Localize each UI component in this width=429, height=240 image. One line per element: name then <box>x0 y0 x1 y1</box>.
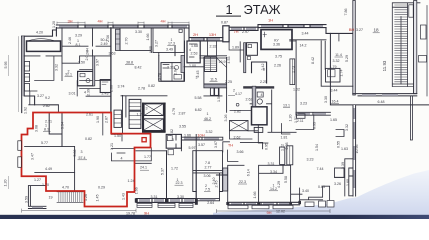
room 3.44 bottom wall <box>290 40 326 113</box>
svg-text:2.04: 2.04 <box>85 48 89 55</box>
svg-text:2.40: 2.40 <box>212 178 216 185</box>
svg-text:11.4: 11.4 <box>335 53 342 57</box>
corridor verticals by stair <box>205 85 227 88</box>
pillar 0.87 <box>223 26 229 42</box>
interior walls top-left quadrant <box>24 28 111 63</box>
small room 4 (x187) <box>187 41 200 63</box>
svg-text:3.31: 3.31 <box>151 195 158 199</box>
svg-text:0.29: 0.29 <box>98 186 105 190</box>
left outer wall <box>22 36 25 96</box>
svg-text:3.57: 3.57 <box>198 143 205 147</box>
svg-text:1: 1 <box>207 112 209 116</box>
svg-text:4: 4 <box>261 93 263 97</box>
svg-text:1.77: 1.77 <box>144 155 151 159</box>
svg-text:2.87: 2.87 <box>179 111 186 115</box>
svg-text:2.06: 2.06 <box>110 85 114 92</box>
svg-text:17.3: 17.3 <box>168 42 175 46</box>
svg-text:3.06: 3.06 <box>204 174 211 178</box>
right wing right edge below tower <box>410 96 412 140</box>
window band 7H (y27.2-30.4) <box>229 27 258 30</box>
right wing interior rooms <box>335 130 354 197</box>
svg-text:12.02: 12.02 <box>276 210 285 214</box>
svg-text:1.43: 1.43 <box>121 193 125 200</box>
svg-text:6.14: 6.14 <box>246 169 250 176</box>
svg-text:3.32: 3.32 <box>333 59 340 63</box>
louvre shaft A <box>129 99 141 110</box>
svg-text:3.30: 3.30 <box>324 96 328 103</box>
svg-text:4.53: 4.53 <box>227 57 231 64</box>
svg-text:2.62: 2.62 <box>246 98 253 102</box>
svg-text:6.48: 6.48 <box>378 100 385 104</box>
svg-text:3.26: 3.26 <box>224 115 228 122</box>
svg-text:4: 4 <box>121 157 123 161</box>
corridor wall y146.4 <box>25 146 75 191</box>
louvre shaft left <box>114 110 121 127</box>
svg-text:1.24: 1.24 <box>128 179 135 183</box>
svg-text:24.1: 24.1 <box>140 165 147 169</box>
svg-text:1.26: 1.26 <box>84 194 88 201</box>
svg-text:4.17: 4.17 <box>235 92 242 96</box>
right wing bottom annex <box>349 168 353 196</box>
bathroom unit courtyard <box>227 86 297 149</box>
navy footer bar <box>0 215 429 219</box>
svg-text:1.45: 1.45 <box>95 195 99 202</box>
room 1.77 walls <box>135 148 152 164</box>
svg-text:11.93: 11.93 <box>382 60 387 71</box>
svg-text:1.65: 1.65 <box>330 118 337 122</box>
svg-text:2.25: 2.25 <box>260 80 267 84</box>
svg-text:1.20: 1.20 <box>288 115 292 122</box>
small dark box courtyard <box>252 107 268 125</box>
small rooms left of tower <box>290 33 339 41</box>
svg-text:1.68: 1.68 <box>191 44 198 48</box>
svg-text:2.70: 2.70 <box>125 38 129 45</box>
svg-text:2.64: 2.64 <box>174 68 178 75</box>
svg-text:1.85: 1.85 <box>149 46 153 53</box>
svg-text:4.70: 4.70 <box>62 186 69 190</box>
svg-text:2: 2 <box>233 88 235 92</box>
svg-text:4: 4 <box>189 48 191 52</box>
svg-text:3Н: 3Н <box>67 18 72 23</box>
svg-text:5.37: 5.37 <box>160 168 164 175</box>
step to tower <box>326 28 353 34</box>
room label underlines <box>43 33 380 192</box>
left wall riser boxes <box>24 62 29 72</box>
title: 1 ЭТАЖ <box>216 2 281 17</box>
svg-text:3.27: 3.27 <box>37 94 44 98</box>
svg-text:2.82: 2.82 <box>43 104 50 108</box>
svg-text:3.23: 3.23 <box>307 157 314 161</box>
balcony glazing arc <box>29 39 54 41</box>
dimension line 12.02 <box>216 209 330 213</box>
svg-text:3.44: 3.44 <box>331 88 338 92</box>
bottom window band right rooms <box>228 202 300 205</box>
window band right (y24.6-27.6) <box>258 25 326 31</box>
svg-text:1.27: 1.27 <box>34 178 41 182</box>
svg-text:3.75: 3.75 <box>275 55 282 59</box>
main spine wall x=110.9 <box>110 28 112 113</box>
balcony top-left <box>27 41 61 51</box>
svg-text:2.87: 2.87 <box>105 116 109 123</box>
svg-text:2.43: 2.43 <box>102 91 109 95</box>
stair tower landing <box>392 84 413 86</box>
svg-text:3.34: 3.34 <box>61 122 65 129</box>
svg-text:2.97: 2.97 <box>242 30 249 34</box>
svg-text:3.40: 3.40 <box>302 189 309 193</box>
svg-text:2.78: 2.78 <box>138 87 145 91</box>
dimension labels vertical (rotated) <box>4 9 388 204</box>
svg-text:7.8: 7.8 <box>205 161 210 165</box>
red zone labels <box>67 17 354 215</box>
svg-text:1.92: 1.92 <box>24 107 28 114</box>
svg-text:1.02: 1.02 <box>293 87 300 91</box>
outer wall top-left section <box>22 28 57 37</box>
svg-text:1.74: 1.74 <box>340 70 344 77</box>
svg-text:ВН: ВН <box>349 27 355 32</box>
south facade sill row <box>137 201 334 209</box>
window band top (y25-28) <box>56 25 189 28</box>
toilet block centre <box>161 63 184 82</box>
svg-text:3.32: 3.32 <box>206 130 213 134</box>
annex bottom-left <box>28 186 46 209</box>
svg-text:5.58: 5.58 <box>195 96 202 100</box>
svg-text:1.70: 1.70 <box>42 183 49 187</box>
svg-text:8.42: 8.42 <box>311 57 315 64</box>
svg-text:1.63: 1.63 <box>341 147 348 151</box>
svg-text:2: 2 <box>205 184 207 188</box>
svg-text:2.64: 2.64 <box>207 201 214 205</box>
svg-text:5.80: 5.80 <box>73 150 77 157</box>
svg-text:14.2: 14.2 <box>300 44 307 48</box>
tower right outer wall <box>414 1 417 94</box>
svg-text:3.66: 3.66 <box>237 150 244 154</box>
svg-text:38.8: 38.8 <box>126 61 133 65</box>
red apartment outline <box>22 113 151 207</box>
rooms x296-330 <box>321 41 353 86</box>
svg-text:9Н: 9Н <box>266 210 271 215</box>
svg-text:3.30: 3.30 <box>135 30 142 34</box>
svg-text:3.29: 3.29 <box>75 34 82 38</box>
walls near 1.81 <box>282 115 314 134</box>
court small service rooms <box>229 42 244 62</box>
svg-text:6.82: 6.82 <box>195 108 202 112</box>
svg-text:2.26: 2.26 <box>274 63 281 67</box>
svg-text:1: 1 <box>177 178 179 182</box>
svg-text:19.78: 19.78 <box>126 211 135 215</box>
small circle mark courtyard <box>236 103 239 106</box>
far right small box <box>421 25 427 39</box>
svg-text:0.82: 0.82 <box>85 137 92 141</box>
left window boxes <box>18 141 22 151</box>
svg-text:2.82: 2.82 <box>234 109 241 113</box>
svg-text:1.20: 1.20 <box>4 180 8 187</box>
svg-text:8.1: 8.1 <box>44 127 49 131</box>
svg-text:1.66: 1.66 <box>253 192 257 199</box>
svg-text:3.32: 3.32 <box>55 64 59 71</box>
svg-text:1.79: 1.79 <box>330 65 337 69</box>
svg-text:1: 1 <box>225 2 232 17</box>
corridor wall y104.8-ish left <box>43 105 58 113</box>
column blobs along south wall <box>135 198 301 205</box>
svg-text:4.29: 4.29 <box>277 181 281 188</box>
room 24.1 top wall <box>136 150 167 152</box>
right wing left wall (double with window fills) <box>353 105 356 196</box>
svg-text:2.42: 2.42 <box>261 64 265 71</box>
svg-text:ТН: ТН <box>228 142 233 147</box>
dimension labels horizontal <box>34 20 385 215</box>
svg-text:1.20: 1.20 <box>52 21 56 28</box>
window section table mark <box>297 114 306 119</box>
svg-text:7Н: 7Н <box>233 29 238 34</box>
storeroom P (thick walls) <box>261 30 292 50</box>
svg-text:2.45: 2.45 <box>196 71 200 78</box>
svg-text:18: 18 <box>373 28 379 33</box>
room 7.5 block <box>193 151 228 201</box>
svg-text:7.44: 7.44 <box>317 167 324 171</box>
stair tower treads <box>395 5 408 82</box>
dimension ticks above north band <box>57 22 189 25</box>
window band step (y37.7-41) <box>189 25 223 41</box>
svg-text:1.50: 1.50 <box>217 95 221 102</box>
svg-text:КУ: КУ <box>274 39 279 43</box>
dimension line 19.78 <box>22 209 136 213</box>
svg-text:1.22: 1.22 <box>280 144 284 151</box>
svg-text:5.58: 5.58 <box>284 176 288 183</box>
svg-text:3.78: 3.78 <box>158 73 162 80</box>
red door marker <box>142 138 146 142</box>
svg-text:0.95: 0.95 <box>265 143 269 150</box>
svg-text:3: 3 <box>172 138 174 142</box>
svg-text:3.23: 3.23 <box>300 102 307 106</box>
svg-text:10Н: 10Н <box>197 133 204 138</box>
room 8.1 partitions inside red zone <box>49 113 62 147</box>
rooms right of spine top <box>62 63 111 96</box>
svg-text:22.3: 22.3 <box>239 180 246 184</box>
svg-text:57.4: 57.4 <box>79 156 86 160</box>
svg-text:1.60: 1.60 <box>346 179 350 186</box>
svg-text:9Н: 9Н <box>144 210 149 215</box>
svg-text:2.46: 2.46 <box>106 35 110 42</box>
svg-text:13Н: 13Н <box>209 32 216 37</box>
svg-text:7.86: 7.86 <box>344 9 348 16</box>
elevator shaft 1 <box>144 104 163 116</box>
stair tower rails <box>392 3 420 94</box>
centre bathroom block <box>166 134 196 154</box>
svg-text:3.01: 3.01 <box>69 91 76 95</box>
svg-text:5.95: 5.95 <box>4 62 8 69</box>
svg-text:1.51: 1.51 <box>294 116 298 123</box>
svg-text:16.4: 16.4 <box>332 100 339 104</box>
courtyard mid rooms x226-296 <box>223 111 268 162</box>
svg-text:3.44: 3.44 <box>302 32 309 36</box>
svg-text:1.66: 1.66 <box>184 133 191 137</box>
top mid rooms partitions (x113-190) <box>116 29 121 50</box>
svg-text:2.61: 2.61 <box>86 113 93 117</box>
svg-text:3.47: 3.47 <box>31 153 35 160</box>
tower left wall <box>353 1 356 96</box>
svg-text:ЭТАЖ: ЭТАЖ <box>244 2 281 17</box>
svg-text:1.81: 1.81 <box>281 135 288 139</box>
room 17.3 walls <box>159 46 184 81</box>
svg-text:3.55: 3.55 <box>179 124 186 128</box>
bottom rooms 22.3 / 14.2 walls <box>216 165 299 205</box>
svg-text:2.77: 2.77 <box>205 166 212 170</box>
svg-text:3.27: 3.27 <box>155 40 159 47</box>
partition x102.8 <box>102 113 104 135</box>
svg-text:0.87: 0.87 <box>221 20 228 24</box>
svg-text:3: 3 <box>146 107 148 111</box>
svg-text:3.31: 3.31 <box>268 162 275 166</box>
svg-text:3.27: 3.27 <box>356 28 363 32</box>
svg-text:3.26: 3.26 <box>334 182 341 186</box>
svg-text:2Н: 2Н <box>193 32 198 37</box>
svg-text:1.00: 1.00 <box>189 64 196 68</box>
hall south wall band <box>182 137 223 140</box>
room 19 partition <box>35 173 85 191</box>
svg-text:8.42: 8.42 <box>135 66 142 70</box>
bathroom hatched boxes left <box>78 56 111 93</box>
svg-text:5.29: 5.29 <box>345 55 349 62</box>
blue landscaping wash bottom-right <box>213 170 429 219</box>
bottom window band left rooms <box>136 199 196 203</box>
svg-text:5.97: 5.97 <box>189 146 196 150</box>
svg-text:2.32: 2.32 <box>210 45 217 49</box>
svg-text:3.59: 3.59 <box>24 196 28 203</box>
svg-text:13.1: 13.1 <box>283 103 290 107</box>
tower bottom wall <box>353 94 417 96</box>
left extension line <box>9 36 19 189</box>
svg-text:19: 19 <box>49 196 53 200</box>
elevator shaft 2 <box>143 119 163 131</box>
svg-text:2.53: 2.53 <box>191 52 198 56</box>
svg-text:3.32: 3.32 <box>345 124 349 131</box>
svg-text:0.82: 0.82 <box>170 129 174 136</box>
svg-text:46.2: 46.2 <box>204 117 211 121</box>
svg-text:1.89: 1.89 <box>232 46 239 50</box>
svg-text:3.08: 3.08 <box>34 125 38 132</box>
svg-text:3.97: 3.97 <box>96 59 100 66</box>
svg-text:4Н: 4Н <box>160 18 165 23</box>
louvre shaft B <box>129 111 141 128</box>
svg-text:0.98: 0.98 <box>285 143 289 150</box>
svg-text:2: 2 <box>68 69 70 73</box>
svg-text:3.36: 3.36 <box>273 42 280 46</box>
svg-text:0.63: 0.63 <box>318 185 325 189</box>
elevator core walls <box>121 96 167 134</box>
svg-text:2.25: 2.25 <box>225 80 232 84</box>
svg-text:2.46: 2.46 <box>68 37 72 44</box>
svg-text:0.93: 0.93 <box>312 122 316 129</box>
room 14.7 partitions <box>29 56 59 105</box>
svg-text:4.49: 4.49 <box>45 167 52 171</box>
svg-text:1.21: 1.21 <box>110 143 114 150</box>
svg-text:14.2: 14.2 <box>270 187 277 191</box>
closet walls centre of red zone <box>111 134 134 161</box>
svg-text:1Н: 1Н <box>268 17 273 22</box>
svg-text:11.5: 11.5 <box>210 77 217 81</box>
svg-text:1.66: 1.66 <box>135 187 139 194</box>
svg-text:0.82: 0.82 <box>148 84 155 88</box>
svg-text:1.50: 1.50 <box>114 134 121 138</box>
svg-text:1.73: 1.73 <box>291 66 295 73</box>
central stair <box>204 57 226 72</box>
svg-text:3.34: 3.34 <box>270 170 277 174</box>
svg-text:8.1: 8.1 <box>76 43 81 47</box>
svg-text:2.39: 2.39 <box>87 89 91 96</box>
duct shaft x290 <box>290 59 295 85</box>
duct room right <box>280 147 285 165</box>
svg-text:3.49: 3.49 <box>166 47 173 51</box>
svg-text:10.95: 10.95 <box>355 145 359 154</box>
svg-text:4.79: 4.79 <box>172 108 176 115</box>
svg-text:3.30: 3.30 <box>177 195 184 199</box>
front long wall right <box>330 33 428 105</box>
svg-text:5.77: 5.77 <box>41 141 48 145</box>
tower balcony box <box>409 5 413 17</box>
svg-text:1.79: 1.79 <box>137 113 144 117</box>
svg-text:2.62: 2.62 <box>234 135 241 139</box>
svg-text:1.90: 1.90 <box>96 116 100 123</box>
stair 19 treads <box>57 192 83 203</box>
svg-text:3.67: 3.67 <box>214 141 218 148</box>
svg-text:1.66: 1.66 <box>146 34 150 41</box>
svg-text:3.63: 3.63 <box>109 52 116 56</box>
svg-text:1.72: 1.72 <box>171 166 178 170</box>
svg-text:4.20: 4.20 <box>36 31 43 35</box>
svg-text:3: 3 <box>81 150 83 154</box>
corridor 3.40 walls <box>300 186 330 202</box>
corridor lines centre <box>184 41 227 67</box>
vent box with X courtyard <box>230 121 249 131</box>
svg-text:2.0: 2.0 <box>85 56 89 61</box>
room 24.1 / 22.3 verticals <box>167 151 197 199</box>
courtyard window band (y112-115) <box>296 112 330 115</box>
svg-text:16.9: 16.9 <box>219 60 226 64</box>
svg-text:1.54: 1.54 <box>315 144 319 151</box>
svg-text:4Н: 4Н <box>97 18 102 23</box>
svg-text:9.2: 9.2 <box>45 96 50 100</box>
svg-text:3.39: 3.39 <box>341 162 345 169</box>
svg-text:3.74: 3.74 <box>118 85 125 89</box>
far right property line <box>426 6 428 97</box>
svg-text:0.55: 0.55 <box>336 141 340 148</box>
